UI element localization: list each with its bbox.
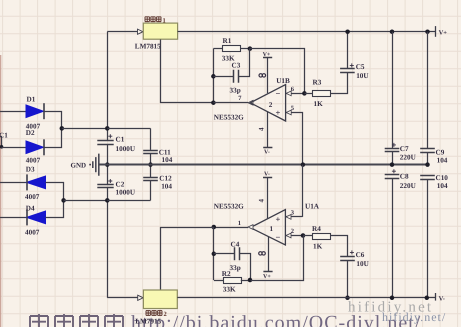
svg-text:R1: R1 [223, 37, 232, 45]
wire: C11/C12 branch vertical top [150, 128, 152, 150]
junction: bridge positive output [60, 126, 65, 131]
resistor R4 1K [303, 235, 312, 237]
wire: C9 to ground rail [427, 152, 429, 165]
junction at left edge input [0, 145, 3, 149]
svg-text:C5: C5 [356, 63, 365, 71]
svg-text:1000U: 1000U [116, 188, 136, 196]
wire: C2 down to regulator 2 input [107, 188, 109, 298]
diode D4 [27, 211, 46, 224]
junction: C3 left tap [211, 74, 216, 79]
wire: R1 left stub [213, 48, 223, 50]
svg-text:1000U: 1000U [116, 145, 136, 153]
capacitor C7 220U [385, 149, 400, 152]
wire: positive raw rail up to regulator 1 input [107, 32, 109, 141]
svg-text:2: 2 [164, 311, 167, 318]
junction: U1A output node [212, 225, 217, 230]
svg-text:D2: D2 [26, 129, 35, 137]
op-amp U1B NE5532G (mirrored, output left) [250, 85, 285, 121]
wire: regulator 2 output to V- rail [177, 297, 435, 299]
V- power symbol below U1B [267, 112, 269, 147]
resistor R3 1K [304, 93, 312, 95]
label: regulator 2 Chinese title [146, 311, 150, 316]
svg-text:+: + [276, 214, 281, 224]
junction: R2/C4 right node [248, 278, 253, 283]
svg-text:4: 4 [258, 127, 266, 131]
svg-text:C2: C2 [116, 181, 125, 189]
pin 6 stub [286, 93, 305, 95]
junction: R1/C3 right node [248, 46, 253, 51]
wire: into regulator 1 input [107, 31, 138, 33]
junction: ground rail x C9/C10 [425, 162, 430, 167]
wire: + inputs tie down to U1A pin 3 [302, 165, 304, 217]
V+ power symbol below U1A [268, 237, 270, 272]
junction: V+ rail x C7 column [390, 29, 395, 34]
capacitor C2 1000U [97, 185, 113, 188]
wire: R1 right to feedback corner [241, 48, 250, 50]
svg-text:+: + [276, 108, 281, 118]
svg-text:33K: 33K [223, 286, 236, 294]
wire: raw + node right to C11 branch [107, 128, 150, 130]
capacitor C12 104 [143, 178, 158, 181]
capacitor C5 10U [340, 69, 355, 73]
junction: ground rail x op-amp + inputs [301, 162, 306, 167]
svg-text:C6: C6 [356, 251, 365, 259]
capacitor C3 33p [234, 70, 239, 83]
junction: C4 left tap [212, 252, 217, 256]
svg-text:1K: 1K [313, 242, 323, 250]
svg-text:C9: C9 [436, 148, 445, 156]
svg-text:LM7815: LM7815 [135, 42, 161, 50]
wire: C3 right stub up to R1 right node [239, 49, 250, 77]
svg-text:4007: 4007 [25, 229, 40, 237]
wire: feedback left vertical (R2/C4 left) [213, 227, 215, 280]
wire: R4 right down to C6 [331, 236, 348, 257]
svg-text:C10: C10 [436, 174, 449, 182]
svg-text:4007: 4007 [26, 157, 41, 165]
svg-text:C7: C7 [400, 145, 409, 153]
wire: D3 anode to bridge - junction [46, 183, 64, 201]
ground rail (center horizontal) [99, 164, 428, 166]
op-amp U1A NE5532G (mirrored, output left) [250, 210, 285, 245]
svg-text:10U: 10U [356, 72, 369, 80]
svg-text:NE5532G: NE5532G [214, 114, 244, 122]
svg-text:2: 2 [291, 228, 294, 235]
wire: U1B output pin 7 to node [213, 102, 248, 104]
svg-text:33p: 33p [230, 264, 241, 272]
wire: C6 bottom to V- rail [347, 260, 349, 298]
wire: R2 left stub [214, 280, 224, 282]
svg-text:−: − [276, 232, 281, 242]
regulator U? input arrow [138, 29, 144, 34]
wire: R2 right to pin 2 riser [241, 280, 250, 282]
junction: raw - node [105, 198, 110, 203]
svg-text:1: 1 [163, 17, 166, 24]
wire: C1 to ground rail [107, 144, 109, 184]
svg-text:R3: R3 [313, 78, 322, 86]
wire: input to D2 anode [2, 147, 27, 149]
svg-text:4: 4 [258, 199, 266, 203]
wire: AC input to D3 cathode [0, 182, 26, 184]
junction: ground rail x C11/C12 [148, 162, 153, 167]
svg-text:1K: 1K [314, 100, 324, 108]
wire: AC input to D4 cathode [0, 217, 26, 219]
junction: V- rail x C6 [345, 296, 350, 301]
svg-text:33p: 33p [230, 86, 241, 94]
svg-text:U1A: U1A [305, 203, 320, 211]
pin 2 stub [285, 235, 303, 237]
wire: D2 cathode up to bridge + junction [45, 129, 62, 148]
svg-text:http://bi.baidu.com/QC-diyl.ne: http://bi.baidu.com/QC-diyl.net/ [131, 312, 421, 327]
capacitor C8 220U [385, 175, 400, 179]
junction pin 2 node [301, 233, 306, 238]
svg-text:C1: C1 [116, 136, 125, 144]
diode D1 [26, 105, 44, 118]
voltage regulator LM7815 (saturation tube 1) [143, 23, 177, 39]
svg-text:V+: V+ [439, 29, 448, 36]
capacitor C11 104 [143, 151, 158, 154]
wire: raw - node right to C12 branch [107, 200, 150, 202]
wire: C3 left stub [213, 76, 234, 78]
pin 1 output stub [214, 227, 248, 229]
svg-text:C8: C8 [400, 173, 409, 181]
terminal V+ (output) [435, 26, 437, 37]
svg-text:10U: 10U [356, 260, 369, 268]
regulator 2 input arrow [138, 295, 144, 300]
svg-text:4007: 4007 [25, 193, 40, 201]
svg-text:V-: V- [264, 149, 270, 155]
voltage regulator LM7915 (saturation tube 2) [143, 290, 177, 309]
svg-text:R4: R4 [312, 225, 321, 233]
junction: raw + node [105, 126, 110, 131]
junction: op-amp U1B output node [211, 100, 216, 105]
wire: feedback left vertical (R1/C3 left) [213, 49, 215, 103]
svg-text:1: 1 [238, 220, 241, 227]
wire: D4 anode up to bridge - junction [46, 201, 64, 218]
wire: feedback to pin 2 [251, 236, 304, 281]
wire: C11 to ground rail [150, 153, 152, 178]
svg-text:220U: 220U [400, 153, 417, 161]
diode D3 [27, 176, 46, 189]
junction: ground rail x C1/C2 [105, 162, 110, 167]
svg-text:V-: V- [264, 172, 270, 178]
wire: C4 left stub [214, 253, 235, 255]
svg-text:D3: D3 [26, 166, 35, 174]
svg-text:104: 104 [162, 156, 173, 164]
svg-text:2: 2 [269, 101, 273, 109]
pin 3 stub [286, 216, 303, 218]
pin 5 stub [286, 113, 303, 165]
wire: C10 to V- rail [427, 179, 429, 298]
svg-text:C4: C4 [231, 240, 240, 248]
wire: R3 right up to C5 [331, 73, 348, 94]
svg-text:V+: V+ [263, 274, 271, 280]
wire: U1A output node left + down to regulator 2 top pin [161, 228, 214, 291]
diode D2 [26, 141, 44, 154]
wire: C7 column top [392, 32, 394, 149]
wire: C5 top to V+ rail [347, 32, 349, 69]
svg-text:104: 104 [437, 182, 448, 190]
wire: C12 down to raw - wire [150, 181, 152, 201]
svg-text:LM7915: LM7915 [135, 318, 161, 326]
svg-text:104: 104 [437, 157, 448, 165]
svg-text:D4: D4 [26, 205, 35, 213]
svg-text:R2: R2 [222, 270, 231, 278]
pin 8 label [259, 74, 262, 77]
svg-text:1: 1 [270, 225, 274, 233]
wire: regulator 1 gnd pin down [161, 40, 214, 103]
svg-text:220U: 220U [400, 182, 417, 190]
wire: into regulator 2 input [107, 297, 138, 299]
svg-text:NE5532G: NE5532G [214, 202, 244, 210]
resistor R2 [224, 278, 242, 284]
capacitor C4 33p [235, 247, 240, 260]
junction: ground rail x C7/C8 [390, 162, 395, 167]
wire: feedback to pin 6 [250, 49, 305, 94]
capacitor C9 104 [420, 149, 435, 153]
svg-text:C12: C12 [159, 174, 172, 182]
svg-text:−: − [276, 89, 281, 99]
wire: C4 right stub down to R2 right node [240, 254, 251, 281]
capacitor C1 1000U [97, 141, 113, 145]
terminal V- (output) [435, 293, 437, 301]
wire: AC input to D1 anode [0, 111, 26, 113]
capacitor C10 104 [420, 176, 435, 180]
svg-text:GND: GND [71, 162, 87, 170]
junction: V+ rail x C5 [345, 29, 350, 34]
pin 8 label (U1A) [259, 252, 262, 255]
svg-text:D1: D1 [27, 96, 36, 104]
junction: bridge negative output [61, 198, 66, 203]
wire: AC input stub to D2 [1, 137, 2, 147]
svg-text:V-: V- [439, 295, 445, 302]
wire: C7 to ground rail [392, 152, 394, 165]
svg-text:104: 104 [161, 183, 172, 191]
label: regulator 1 Chinese title [145, 17, 149, 22]
svg-text:hifidiy.net/: hifidiy.net/ [382, 310, 446, 324]
wire: C8 to V- rail [392, 178, 394, 297]
pin 7 arrow [248, 100, 253, 105]
wire: bridge + to filter node [62, 128, 108, 130]
svg-text:C3: C3 [232, 61, 241, 69]
resistor R1 [223, 46, 241, 52]
junction pin 6 node [302, 91, 307, 96]
junction: V- rail x C10 [425, 296, 430, 301]
svg-text:U1B: U1B [276, 77, 290, 85]
wire: regulator 1 output to V+ rail [178, 31, 436, 33]
wire: D1 cathode to bridge + junction [45, 112, 62, 129]
capacitor C6 10U [340, 257, 355, 261]
wire: bridge - to filter node [64, 200, 108, 202]
junction: V- rail x C8 [390, 296, 395, 301]
watermark big bottom text [30, 314, 48, 327]
junction: V+ rail x C9 column [425, 29, 430, 34]
wire: C9 column top [427, 32, 429, 149]
